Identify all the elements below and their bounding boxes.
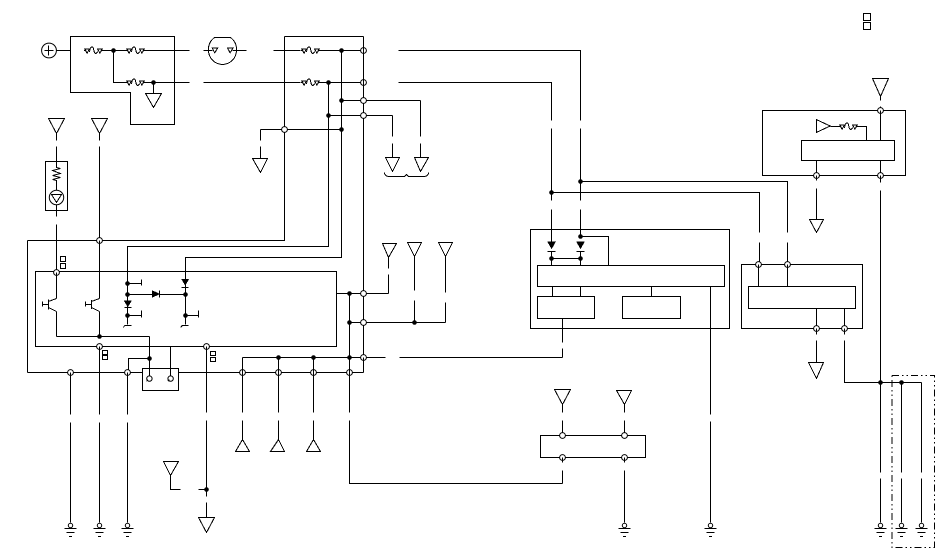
- terminal y323: [361, 320, 367, 326]
- terminal y293: [361, 291, 367, 297]
- wire F2 to right: [145, 50, 190, 52]
- wire stub b2: [651, 287, 653, 297]
- ground G4: [705, 523, 717, 536]
- wire gnd drop 70: [70, 373, 72, 523]
- terminal C1-R: [228, 48, 233, 53]
- connector T12: [271, 440, 285, 452]
- wire T14 stem: [562, 405, 564, 433]
- wire D5 cathode: [580, 252, 582, 266]
- junction gnd bus 880: [878, 380, 883, 385]
- connector T8: [439, 243, 453, 257]
- junction main fuse row1: [111, 48, 116, 53]
- terminal bus 70: [68, 370, 74, 376]
- transistor Q2: [86, 299, 100, 312]
- diode D4: [547, 242, 556, 252]
- terminal bus 313: [311, 370, 317, 376]
- wire diode feed 1: [551, 193, 553, 243]
- connector T3: [146, 94, 162, 108]
- ground G2: [94, 523, 106, 536]
- terminal horn top: [878, 108, 884, 114]
- fuse box A outline: [71, 37, 175, 125]
- ground G3: [122, 523, 134, 536]
- junction D5 top: [578, 234, 583, 239]
- fuse box B top edge: [285, 36, 364, 38]
- wire drop 278: [278, 358, 280, 440]
- connector T4: [386, 158, 400, 172]
- wire pilot BL out: [562, 458, 564, 484]
- wire drop 242: [242, 358, 244, 440]
- wire T6 stem: [388, 258, 390, 294]
- wire T9 stem: [206, 490, 208, 518]
- wire lamp down: [56, 205, 58, 270]
- junction y129: [339, 127, 344, 132]
- wire chain link: [128, 294, 153, 296]
- relay contact block 1: [538, 297, 595, 319]
- wire gnd drop 901: [901, 383, 903, 523]
- wire gnd drop 880: [880, 383, 882, 523]
- wire stub b1b: [580, 287, 582, 297]
- pilot box: [541, 436, 646, 458]
- wire y129 link: [261, 129, 342, 131]
- wire row1 long: [399, 51, 581, 182]
- connector T7: [408, 243, 422, 257]
- wire stub b1a: [552, 287, 554, 297]
- wire bus corner: [363, 358, 365, 373]
- ground G6: [875, 523, 887, 536]
- wire F4 output: [320, 50, 364, 52]
- wire Q2 collector: [99, 273, 101, 299]
- junction y489: [204, 487, 209, 492]
- connector T14: [555, 390, 571, 405]
- wire D5 bypass: [581, 237, 609, 266]
- wire y323: [350, 322, 446, 324]
- connector T5: [415, 158, 429, 172]
- wire W3 horizontal: [28, 241, 285, 373]
- horn unit box: [763, 111, 906, 176]
- wire drop 349 to bottom: [350, 294, 563, 484]
- connector pair S1: [61, 257, 66, 269]
- wire into C1 left: [204, 50, 213, 52]
- junction y323 b: [412, 320, 417, 325]
- junction lineA 313: [311, 355, 316, 360]
- terminal trunk row2: [361, 80, 367, 86]
- fuse F2: [126, 47, 145, 54]
- connector T10: [164, 462, 179, 476]
- wire horn out 1: [816, 161, 818, 176]
- wire y181 to right: [581, 182, 788, 265]
- wire horn out 2: [880, 161, 882, 176]
- wire Q2 emitter: [99, 312, 101, 337]
- junction row1 drop: [578, 179, 583, 184]
- wire T16 stem: [880, 97, 882, 111]
- horn symbol: [816, 120, 830, 133]
- diode D5: [576, 242, 585, 252]
- wire pilot BR out: [624, 458, 626, 523]
- terminal horn B2: [878, 173, 884, 179]
- wire winker out 2: [844, 309, 846, 329]
- wire fuse to rect: [858, 127, 867, 141]
- wire battery to fuse box: [57, 50, 71, 52]
- brace marker: [385, 173, 429, 177]
- terminal trunk row1: [361, 48, 367, 54]
- wire T17 stem: [816, 176, 818, 220]
- wire to connector T3: [153, 83, 155, 94]
- wire trunk branch y100: [342, 100, 421, 102]
- terminal winker B2: [842, 326, 848, 332]
- relay box: [143, 369, 179, 391]
- diode D2 down: [124, 301, 132, 308]
- wire drop 206: [206, 347, 208, 490]
- terminal branch y100: [361, 98, 367, 104]
- connector T11: [236, 440, 250, 452]
- terminal winker B1: [814, 326, 820, 332]
- wire box out right y293: [337, 293, 389, 295]
- wire D4 cathode: [551, 252, 553, 266]
- junction y293: [347, 291, 352, 296]
- diode D3 down: [181, 279, 189, 288]
- fuse F5: [301, 79, 320, 86]
- wire to terminal A1: [149, 359, 151, 376]
- wire T18 stem: [816, 329, 818, 363]
- terminal box bottom 2: [204, 344, 210, 350]
- connector pair S3: [211, 352, 216, 362]
- relay unit box: [531, 230, 730, 329]
- junction gnd bus 901: [899, 380, 904, 385]
- wire gnd drop 127: [127, 373, 129, 523]
- terminal W3: [97, 238, 103, 244]
- terminal C1-L: [212, 48, 217, 53]
- wire to connector T4: [392, 116, 394, 158]
- wire F4 input: [285, 50, 301, 52]
- ground G7: [896, 523, 908, 536]
- junction row2 drop: [549, 190, 554, 195]
- fuse F4: [301, 47, 320, 54]
- wire T10 link: [171, 476, 207, 490]
- connector T9: [199, 518, 215, 533]
- wire chain2 vertical: [185, 273, 187, 325]
- terminal lineA 363: [361, 355, 367, 361]
- junction D5 out: [578, 256, 583, 261]
- wire horn to fuse: [831, 126, 840, 128]
- wire relay out right: [710, 287, 712, 523]
- wire F4 branch down: [186, 51, 342, 273]
- terminal horn B1: [814, 173, 820, 179]
- relay contact block 2: [623, 297, 681, 319]
- wire F3 to right: [145, 82, 190, 84]
- terminal branch y115: [361, 113, 367, 119]
- wire emitter bus drop: [129, 337, 150, 373]
- wire block1 out: [562, 319, 564, 358]
- ground G1: [65, 523, 77, 536]
- junction emitter bus: [97, 334, 102, 339]
- wire T8 stem: [445, 257, 447, 323]
- transistor Q1: [43, 299, 57, 312]
- wire gnd drop 921: [921, 383, 923, 523]
- wire to connector T5: [420, 101, 422, 158]
- connector T6: [383, 244, 397, 258]
- wire winker out 1: [816, 309, 818, 329]
- battery B1: [42, 43, 57, 58]
- connector T19: [253, 159, 268, 173]
- wire T2 continues to box: [99, 241, 101, 273]
- junction D4 out: [549, 256, 554, 261]
- wire F5 input: [285, 82, 301, 84]
- terminal bus 127: [125, 370, 131, 376]
- wire y192 to right: [552, 193, 760, 265]
- junction row2 B: [326, 80, 331, 85]
- connector T16: [873, 79, 889, 97]
- connector T13: [307, 440, 321, 452]
- wire C1 to fuse box B row1: [274, 50, 285, 52]
- wire to connector T19: [260, 130, 262, 159]
- winker box: [742, 265, 863, 329]
- contact K1: [125, 280, 141, 286]
- wire row2 gap segment: [204, 82, 285, 84]
- junction branch y100: [339, 98, 344, 103]
- terminal pilot BR: [622, 455, 628, 461]
- contact K3: [183, 311, 198, 318]
- ground G8: [916, 523, 928, 536]
- terminal pilot TR: [622, 433, 628, 439]
- wire winker stub 2: [787, 265, 789, 287]
- wire horn feed: [880, 111, 882, 141]
- connector pair S4: [864, 14, 871, 30]
- relay inner unit: [538, 266, 725, 287]
- diode D1 right: [152, 290, 185, 297]
- terminal y129: [282, 127, 288, 133]
- wire F1-F2: [103, 50, 127, 52]
- terminal A1: [147, 376, 152, 381]
- wire chain1 vertical: [127, 273, 129, 325]
- indicator unit box: [46, 162, 68, 211]
- connector T15: [617, 391, 632, 405]
- contact K2: [125, 311, 141, 318]
- fuse box B left edge / wire: [28, 37, 285, 241]
- connector pair S2: [103, 351, 108, 360]
- terminal bus 242: [240, 370, 246, 376]
- junction lineA 349: [347, 355, 352, 360]
- wire Q1 emitter: [56, 312, 58, 337]
- terminal bus 278: [276, 370, 282, 376]
- terminal bus 349: [347, 370, 353, 376]
- chain1 foot: [124, 326, 132, 328]
- emitter bus: [57, 336, 150, 338]
- junction F3 output: [151, 80, 156, 85]
- connector T2: [92, 119, 108, 134]
- connector bus: [28, 372, 364, 374]
- terminal A2: [168, 376, 174, 381]
- main trunk vertical: [363, 37, 365, 372]
- junction y323 a: [347, 320, 352, 325]
- wire drop 313: [313, 358, 315, 440]
- wire gnd drop 99: [99, 347, 101, 523]
- wire F5 branch down: [128, 83, 329, 273]
- fuse F6: [839, 123, 858, 130]
- junction lineA 278: [276, 355, 281, 360]
- wire T2 down: [99, 134, 101, 241]
- wire line A: [243, 357, 563, 359]
- inline connector C1: [208, 38, 236, 65]
- wire row2 long: [399, 83, 552, 193]
- terminal box top-left: [54, 270, 60, 276]
- terminal winker T1: [756, 262, 762, 268]
- resistor R1: [53, 162, 61, 191]
- connector T18: [809, 363, 824, 379]
- junction row1 B: [339, 48, 344, 53]
- wire F5 output: [320, 82, 364, 84]
- lamp L1: [49, 190, 63, 204]
- wire row2 drop: [114, 51, 127, 83]
- wire winker to ground bus: [845, 329, 922, 383]
- junction branch y115: [326, 113, 331, 118]
- winker inner unit: [749, 287, 856, 309]
- fuse F3: [126, 79, 145, 86]
- wire Q1 collector: [56, 273, 58, 299]
- wire diode link: [552, 258, 581, 260]
- chain2 foot: [181, 326, 189, 328]
- wire T7 stem: [414, 257, 416, 323]
- terminal winker T2: [785, 262, 791, 268]
- connector T1: [49, 119, 65, 134]
- terminal pilot BL: [560, 455, 566, 461]
- wire diode feed 2: [580, 182, 582, 237]
- wire trunk branch y115: [329, 115, 393, 117]
- wire T15 stem: [624, 405, 626, 433]
- horn inner unit: [802, 141, 895, 161]
- frame harness box: [892, 375, 935, 547]
- terminal pilot TL: [560, 433, 566, 439]
- control box outline: [36, 272, 337, 347]
- junction chain2: [183, 292, 188, 297]
- fuse F1: [84, 47, 103, 54]
- junction y358 left: [147, 356, 152, 361]
- wire out of C1 right: [233, 50, 247, 52]
- connector T17: [810, 220, 824, 233]
- wire A2 up: [170, 347, 172, 376]
- junction chain1: [125, 292, 130, 297]
- wire T1 to lamp unit: [56, 134, 58, 162]
- wire winker stub 1: [758, 265, 760, 287]
- wire horn main down: [880, 176, 882, 383]
- terminal box bottom 1: [97, 344, 103, 350]
- ground G5: [619, 523, 631, 536]
